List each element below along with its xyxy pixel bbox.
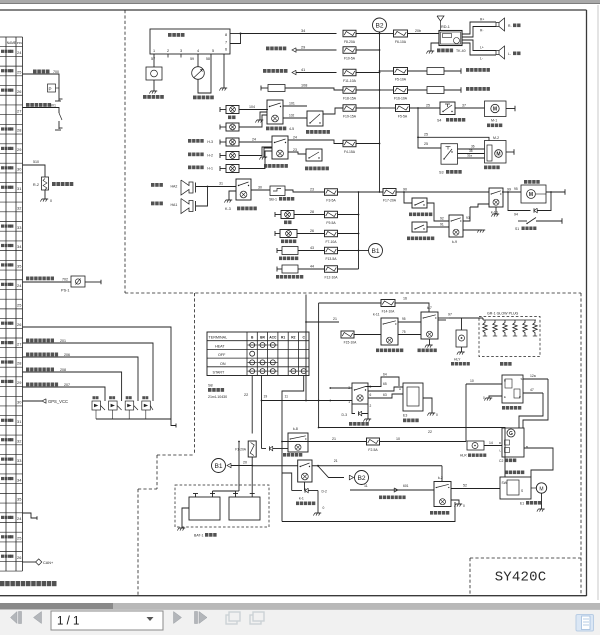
ECM diag power terminal xyxy=(276,267,278,272)
svg-text:108: 108 xyxy=(301,84,307,88)
svg-text:24: 24 xyxy=(293,136,297,140)
svg-text:H-1: H-1 xyxy=(207,167,213,171)
wire 23 to S-2 xyxy=(288,152,306,154)
svg-text:B2: B2 xyxy=(375,22,383,29)
radio MP3 player TK-40 xyxy=(439,31,462,46)
fog lamp relay A-5 xyxy=(267,100,283,124)
fuse F5-5A xyxy=(396,105,410,112)
svg-text:A: A xyxy=(399,387,401,391)
horn bus wire 31 xyxy=(196,186,236,188)
sensor bus terminal hook xyxy=(171,419,176,426)
fuse F17-20A xyxy=(383,189,396,196)
svg-text:B: B xyxy=(251,336,254,340)
alternator C2 xyxy=(502,428,524,457)
wire F19 to bus xyxy=(356,107,380,109)
svg-text:65: 65 xyxy=(383,382,387,386)
svg-text:19: 19 xyxy=(264,395,268,399)
wire net11 bottom long xyxy=(282,502,455,522)
platform lamp xyxy=(226,165,239,173)
svg-text:21: 21 xyxy=(332,437,336,441)
svg-text:G: G xyxy=(509,431,513,437)
svg-text:0: 0 xyxy=(463,504,465,508)
svg-text:206: 206 xyxy=(64,353,70,357)
wire 41 headlamp leveling xyxy=(263,69,267,73)
wire 34 main feed xyxy=(241,33,337,35)
wire 47 down xyxy=(519,393,543,428)
combo dropdown arrow xyxy=(147,617,154,621)
wire D-3 to E3 64 xyxy=(366,377,400,387)
dashed boundary step3 xyxy=(156,455,158,489)
E3 ground xyxy=(423,398,432,413)
wire 28 dome xyxy=(294,214,325,216)
sensor switch unit 1 xyxy=(93,396,96,399)
svg-text:33: 33 xyxy=(17,225,21,230)
svg-text:R1: R1 xyxy=(281,336,285,340)
terminal wire 700 end xyxy=(55,100,61,102)
wire 12a xyxy=(523,378,548,380)
wire sensor switch 700 from pin 26 xyxy=(23,74,60,99)
engine start power resistor xyxy=(408,89,428,91)
svg-text:F11-10A: F11-10A xyxy=(343,79,356,83)
ground A-5 xyxy=(260,112,267,120)
svg-text:58: 58 xyxy=(206,57,210,61)
svg-text:H-2: H-2 xyxy=(207,154,213,158)
diode D-3 xyxy=(352,404,355,414)
wire motor to terminal xyxy=(546,191,565,193)
accel inhibit switch S-9 xyxy=(412,222,427,232)
battery 1 xyxy=(189,497,220,520)
safety relay label xyxy=(502,406,505,410)
starter motor M xyxy=(536,483,546,493)
wire starter S xyxy=(499,486,501,488)
fuse F1-20A xyxy=(248,441,256,457)
svg-text:S: S xyxy=(521,377,523,381)
svg-text:26: 26 xyxy=(310,229,314,233)
svg-text:PIN: PIN xyxy=(17,41,22,45)
svg-text:B: B xyxy=(504,379,506,383)
svg-text:26: 26 xyxy=(17,322,21,327)
svg-text:0: 0 xyxy=(50,199,52,203)
svg-text:207: 207 xyxy=(64,383,70,387)
svg-text:59: 59 xyxy=(190,57,194,61)
wire alternator B to starter xyxy=(524,448,553,477)
svg-text:C: C xyxy=(303,336,306,340)
svg-text:30: 30 xyxy=(17,167,22,172)
battery feed wire xyxy=(238,442,240,492)
svg-text:BR: BR xyxy=(260,336,265,340)
power box pin ticks xyxy=(167,54,169,58)
turn lamp 1 xyxy=(226,152,239,160)
first page button xyxy=(11,612,18,624)
wire 102 switch lower xyxy=(283,117,307,119)
wire 12a down to alternator xyxy=(523,379,548,428)
svg-text:35: 35 xyxy=(17,264,21,269)
svg-text:B2: B2 xyxy=(357,475,365,482)
S013 label xyxy=(379,496,382,500)
wire 25 branch down xyxy=(418,108,441,148)
svg-text:k-2: k-2 xyxy=(438,476,443,480)
svg-text:E1: E1 xyxy=(520,502,524,506)
battery ground xyxy=(182,508,189,528)
svg-text:GPS_VCC: GPS_VCC xyxy=(48,399,68,404)
wire bus to F5 xyxy=(380,70,394,72)
svg-text:510: 510 xyxy=(33,160,39,164)
svg-text:24: 24 xyxy=(17,516,22,521)
wire 29 fan high speed xyxy=(266,47,270,51)
svg-text:25: 25 xyxy=(426,104,430,108)
wire to node B1 xyxy=(359,250,369,252)
svg-text:D-3: D-3 xyxy=(342,413,348,417)
wire S07 to F19 xyxy=(323,108,343,114)
dome lamp terminal xyxy=(274,212,276,217)
svg-text:E3: E3 xyxy=(403,414,407,418)
wire net19 long horizontal xyxy=(262,400,353,402)
relay k-10 xyxy=(489,188,503,207)
svg-text:GR-1 GLOW PLUG: GR-1 GLOW PLUG xyxy=(487,312,519,316)
svg-text:F6-10A: F6-10A xyxy=(395,40,407,44)
svg-text:92: 92 xyxy=(440,217,444,221)
page view mode button active xyxy=(576,615,594,632)
svg-text:95: 95 xyxy=(514,187,518,191)
fuse F14-10A xyxy=(381,300,395,307)
svg-text:3: 3 xyxy=(348,386,350,390)
svg-text:97: 97 xyxy=(448,313,452,317)
wire 22 bottom branch xyxy=(319,428,505,478)
wire D-3 to E3 65 xyxy=(368,387,403,391)
wire ignition net19 down xyxy=(261,376,263,449)
fuse F19-15A xyxy=(343,105,356,112)
fan motor M-1 xyxy=(485,101,507,117)
svg-text:7: 7 xyxy=(225,41,227,45)
svg-text:26: 26 xyxy=(17,555,21,560)
wire lamp1 junction xyxy=(239,147,272,156)
fog lamp 2 terminal xyxy=(219,125,221,130)
wire bus to F6 xyxy=(380,33,394,35)
horn-2 link xyxy=(196,187,208,207)
svg-text:F5-5A: F5-5A xyxy=(398,115,408,119)
speaker L wires xyxy=(462,40,496,51)
GPS_VCC wire from pin 24b xyxy=(23,400,43,402)
wire F18 to bus xyxy=(356,89,380,91)
flameout motor E3 xyxy=(403,383,423,411)
AC compressor clutch xyxy=(146,67,162,80)
svg-text:14: 14 xyxy=(489,441,493,445)
disabled window icon 2 xyxy=(250,615,261,624)
wire 90 to k-10 xyxy=(396,191,489,193)
wire F11 to bus xyxy=(356,72,380,74)
speaker R xyxy=(496,18,505,31)
HLY ground xyxy=(461,347,463,352)
wire M-1 to terminal xyxy=(506,108,515,110)
svg-text:F10-5A: F10-5A xyxy=(344,57,356,61)
svg-text:20b: 20b xyxy=(415,29,421,33)
dropping resistor box xyxy=(268,85,285,92)
ignition contacts START xyxy=(250,369,255,374)
wire 11 to k-2 xyxy=(350,489,434,491)
wire 22 ignition B down xyxy=(251,376,253,434)
horn-2 xyxy=(181,199,193,214)
wire F15 to k-11 xyxy=(354,334,381,336)
svg-text:F16-10A: F16-10A xyxy=(394,97,408,101)
svg-text:24: 24 xyxy=(252,138,256,142)
wire k-1 out to k-2 feed xyxy=(312,465,442,467)
node B1 bottom xyxy=(212,459,226,473)
wire D-3 pin3 xyxy=(330,387,352,389)
svg-text:24: 24 xyxy=(17,50,22,55)
svg-text:HLR: HLR xyxy=(460,454,467,458)
svg-text:22: 22 xyxy=(428,430,432,434)
wire 52 k-2 to starter xyxy=(451,488,500,490)
svg-text:S: S xyxy=(521,489,523,493)
svg-text:208: 208 xyxy=(60,368,66,372)
diode to k-8 xyxy=(262,448,267,450)
svg-text:OFF: OFF xyxy=(218,353,226,357)
svg-text:21n4-10430: 21n4-10430 xyxy=(208,395,227,399)
head lamp switch S-2 xyxy=(306,149,322,161)
ground K-3 xyxy=(229,191,236,200)
svg-text:HA1: HA1 xyxy=(171,203,178,207)
svg-text:24: 24 xyxy=(17,283,22,288)
platform lamp terminal xyxy=(219,166,221,171)
svg-text:E: E xyxy=(504,395,506,399)
k-9 ground right xyxy=(463,229,482,231)
wire 10 F2 to right xyxy=(380,441,467,443)
svg-text:R-: R- xyxy=(480,29,483,33)
dashed boundary step1 xyxy=(194,293,196,455)
battery relay switch k-11 xyxy=(381,318,398,345)
svg-text:23: 23 xyxy=(293,148,297,152)
svg-text:27: 27 xyxy=(17,108,21,113)
window right edge xyxy=(597,5,599,600)
svg-text:95: 95 xyxy=(402,317,406,321)
flameout relay k-2 xyxy=(434,482,451,507)
fog lamp xyxy=(226,106,239,114)
wire k-7 to glow plugs xyxy=(438,319,446,321)
svg-text:1: 1 xyxy=(348,400,350,404)
svg-text:601: 601 xyxy=(403,484,409,488)
svg-text:41: 41 xyxy=(301,68,305,72)
fuse F12-10A xyxy=(325,266,338,273)
fuse F4-15A xyxy=(343,140,356,147)
svg-text:99: 99 xyxy=(507,188,511,192)
wire 601 arrow xyxy=(394,488,398,492)
wire 201 from pin 32b xyxy=(23,343,154,401)
svg-text:L: L xyxy=(499,449,501,453)
throttle pot S1 switch xyxy=(527,218,536,224)
svg-text:HLY: HLY xyxy=(454,358,461,362)
svg-text:PS-1: PS-1 xyxy=(61,289,69,293)
svg-text:2: 2 xyxy=(370,404,372,408)
svg-text:1: 1 xyxy=(153,49,155,53)
svg-text:S1: S1 xyxy=(515,227,519,231)
svg-text:52: 52 xyxy=(463,484,467,488)
starter ground xyxy=(541,493,543,509)
svg-text:10: 10 xyxy=(470,379,474,383)
last page button xyxy=(195,612,198,624)
svg-text:6: 6 xyxy=(370,393,372,397)
sensor common bus xyxy=(96,418,171,420)
svg-text:RD-1: RD-1 xyxy=(441,25,450,29)
wire F1 to B1 junction xyxy=(251,457,253,466)
dome lamp xyxy=(281,211,294,219)
fog lamp switch S07 xyxy=(307,111,323,126)
diode D-2 xyxy=(304,482,306,491)
power switch S4 xyxy=(440,102,455,115)
wire D-3 to E3 63 xyxy=(368,394,403,398)
ignition contacts OFF xyxy=(250,351,255,356)
svg-text:F9-5A: F9-5A xyxy=(326,221,336,225)
light sensor xyxy=(192,67,205,80)
fuse F13-5A xyxy=(325,247,338,254)
wire PS-1 to terminal xyxy=(85,281,101,283)
svg-text:SB-1: SB-1 xyxy=(269,198,277,202)
CAN wire from pin 35d xyxy=(23,561,37,563)
page bottom border xyxy=(0,595,587,597)
svg-text:23: 23 xyxy=(310,188,314,192)
node B2 bottom xyxy=(355,471,369,485)
antenna xyxy=(437,16,444,21)
horn relay K-3 xyxy=(236,179,251,200)
dashed boundary step5 xyxy=(137,489,139,595)
fuse F15-10A xyxy=(341,331,354,338)
svg-text:K-3: K-3 xyxy=(225,207,231,211)
svg-text:64: 64 xyxy=(383,373,387,377)
svg-text:M: M xyxy=(493,106,497,112)
node B1 top xyxy=(369,244,383,258)
svg-text:0: 0 xyxy=(436,413,438,417)
charge relay k-8 xyxy=(288,433,308,452)
wire B1 arrow xyxy=(231,465,252,467)
svg-text:21: 21 xyxy=(334,459,338,463)
wire 104 xyxy=(239,109,268,111)
wire 43 xyxy=(298,250,325,252)
wire F1 down to battery xyxy=(251,466,253,495)
ground below R-2 xyxy=(44,190,46,199)
k-1 ground xyxy=(317,491,319,514)
svg-text:P: P xyxy=(519,395,521,399)
wire fog lamp 2 to relay xyxy=(239,115,267,127)
horn-1 label xyxy=(151,183,155,187)
svg-text:ACC: ACC xyxy=(269,336,277,340)
svg-text:NAME: NAME xyxy=(7,41,16,45)
svg-text:0: 0 xyxy=(483,396,485,400)
parking relay D-3 xyxy=(352,383,368,404)
svg-text:2: 2 xyxy=(167,49,169,53)
svg-text:B1: B1 xyxy=(214,463,222,470)
svg-text:M-1: M-1 xyxy=(491,119,497,123)
horn-1 xyxy=(181,180,193,195)
svg-text:63: 63 xyxy=(383,393,387,397)
fuse F18-15A xyxy=(343,87,356,94)
fuse F10-5A xyxy=(343,47,356,54)
wire ignition net11 down xyxy=(282,376,304,522)
wire 21 to F15 xyxy=(306,321,339,323)
previous page button xyxy=(34,612,42,624)
ground D-3 xyxy=(367,414,369,420)
svg-text:CAN+: CAN+ xyxy=(43,561,54,565)
svg-text:R-: R- xyxy=(508,24,512,28)
wire 25 upper branch xyxy=(418,137,489,140)
battery 2 xyxy=(229,497,260,520)
svg-text:31: 31 xyxy=(219,182,223,186)
net11 junction dots xyxy=(281,441,283,443)
svg-text:F8-20A: F8-20A xyxy=(344,40,356,44)
head lamp relay k-4 xyxy=(272,136,288,159)
svg-text:700: 700 xyxy=(53,70,59,74)
wire 108 resistor row xyxy=(260,86,262,91)
turn lamp 2 terminal xyxy=(219,140,221,145)
svg-text:M: M xyxy=(496,151,500,157)
bottom-left caption xyxy=(0,581,5,586)
dashed boundary cab-left xyxy=(124,10,126,293)
wire to B2 arrow xyxy=(318,466,344,478)
svg-text:k-11: k-11 xyxy=(373,313,380,317)
battery link wire xyxy=(213,490,236,492)
rotating beacon lamp xyxy=(280,230,297,238)
svg-text:35a: 35a xyxy=(467,154,472,158)
horn-2 label xyxy=(151,202,155,206)
svg-text:25: 25 xyxy=(17,69,21,74)
wire S-8 to k-9 xyxy=(427,203,449,221)
svg-text:35: 35 xyxy=(469,149,473,153)
wire F4 to bus xyxy=(356,143,380,145)
fuse F16-10A xyxy=(394,87,408,94)
fuse F2-5A xyxy=(367,438,380,445)
wiper switch S3 xyxy=(441,144,458,165)
svg-text:34: 34 xyxy=(17,244,22,249)
svg-text:F13-5A: F13-5A xyxy=(325,257,337,261)
svg-text:0: 0 xyxy=(323,506,325,510)
svg-text:4: 4 xyxy=(197,49,199,53)
svg-text:34: 34 xyxy=(17,477,22,482)
ignition contacts HEAT xyxy=(250,343,255,348)
wiper motor M-2 xyxy=(485,141,507,164)
svg-text:201: 201 xyxy=(60,339,66,343)
switch on 601 wire xyxy=(59,113,62,120)
controller power terminal xyxy=(276,248,278,253)
k-2 ground xyxy=(451,500,459,504)
svg-text:28: 28 xyxy=(17,361,21,366)
sensor switch unit 4 xyxy=(142,396,145,399)
svg-text:k-1: k-1 xyxy=(299,497,304,501)
svg-text:104: 104 xyxy=(249,105,255,109)
svg-text:M-2: M-2 xyxy=(493,136,499,140)
wire pin31c hook xyxy=(23,513,38,518)
ECM power resistor xyxy=(408,70,428,72)
HLR indicator xyxy=(467,441,484,450)
wire bus to F16 xyxy=(380,89,394,91)
svg-text:P: P xyxy=(49,86,52,91)
svg-text:102: 102 xyxy=(289,114,295,118)
svg-text:34: 34 xyxy=(301,29,305,33)
svg-text:28: 28 xyxy=(17,128,21,133)
controller power box xyxy=(282,247,298,255)
dashed boundary step2 xyxy=(157,454,195,456)
svg-text:33: 33 xyxy=(17,458,21,463)
k-10 ground xyxy=(495,207,497,214)
svg-text:L-: L- xyxy=(480,57,483,61)
svg-text:4-5: 4-5 xyxy=(289,127,294,131)
wire 25 to S4 xyxy=(410,107,441,109)
wire bus to F5-5A xyxy=(380,107,396,109)
svg-text:26: 26 xyxy=(17,89,21,94)
svg-text:57: 57 xyxy=(151,57,155,61)
svg-text:47: 47 xyxy=(530,388,534,392)
battery box dashed xyxy=(175,485,269,527)
next page button xyxy=(174,612,182,624)
svg-text:F14-10A: F14-10A xyxy=(382,310,395,314)
wire 47 xyxy=(523,392,543,394)
